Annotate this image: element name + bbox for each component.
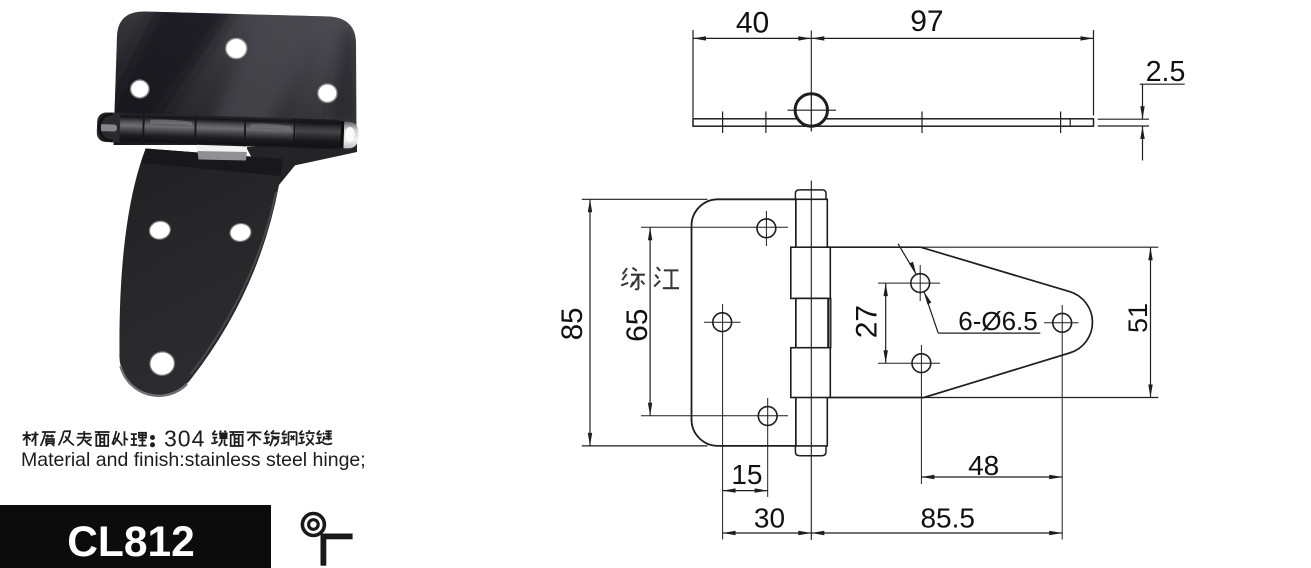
photo: barrel gloss streak left knuckle [150, 119, 192, 125]
barrel pin column [796, 199, 827, 446]
knuckle 2 box (right leaf) [791, 247, 831, 298]
Chinese caption line: material and surface finish text [23, 430, 333, 446]
svg-text:48: 48 [968, 450, 999, 481]
dimension line 40/97 [693, 37, 1094, 39]
photo: strap hole upper-left [148, 219, 172, 241]
left leaf plate outline [692, 199, 796, 446]
char jiao [298, 430, 314, 445]
svg-text:15: 15 [731, 459, 762, 490]
photo: strap tip rim highlight [121, 366, 188, 396]
48 dimension [921, 476, 1062, 478]
2.5 extension line upper [1098, 118, 1149, 120]
char zhi [41, 432, 56, 446]
arrow left end 40 [693, 36, 706, 40]
svg-text:304: 304 [164, 426, 205, 452]
photo: top leaf plate [114, 12, 357, 146]
arrow right end 97 [1081, 36, 1094, 40]
extension line bottom-left hole down [767, 398, 769, 497]
left plate hole bottom [758, 407, 777, 426]
right plate hole top [911, 274, 930, 293]
char biao [77, 431, 92, 446]
extension line right [1093, 30, 1095, 116]
2.5 extension line lower [1098, 125, 1149, 127]
photo: barrel left tip dark ring [99, 114, 113, 141]
photo: top plate hole right [318, 84, 337, 103]
svg-text:30: 30 [754, 503, 785, 534]
char ji [59, 431, 74, 445]
right leaf plate outline [829, 247, 1093, 397]
svg-text:CL812: CL812 [67, 519, 195, 566]
circle vertical centerline overlay [810, 93, 812, 132]
svg-text:51: 51 [1123, 303, 1153, 333]
watermark Lianjiang characters [621, 267, 679, 289]
char bu [247, 432, 262, 446]
svg-text:85: 85 [556, 307, 589, 340]
barrel circle in side view [795, 94, 827, 126]
photo: barrel gloss streak right knuckle [250, 123, 291, 129]
svg-text:27: 27 [851, 305, 884, 338]
65 dimension [641, 226, 788, 228]
svg-text:6-Ø6.5: 6-Ø6.5 [958, 306, 1038, 336]
85 dimension [582, 198, 708, 200]
51 dimension [1150, 247, 1152, 397]
photo: knuckle joint line 4 [293, 118, 296, 148]
extension line mid hole down [722, 304, 724, 540]
photo: barrel right silver cap [343, 122, 358, 149]
photo: bright glint under barrel middle [197, 142, 248, 153]
pin centerline (vertical axis) [810, 181, 812, 541]
27 dimension [878, 282, 940, 284]
6-D6.5 leader line lower segment [924, 292, 938, 333]
left plate hole top [757, 219, 776, 238]
char jiang (watermark) [654, 267, 679, 288]
middle knuckle doubled right edge [828, 298, 831, 347]
circle horizontal centerline [788, 109, 837, 111]
CL812 model label box [0, 505, 271, 568]
extension line left [692, 30, 694, 118]
photo: darker 5th knuckle overlay [295, 118, 340, 149]
photo of stainless steel T-hinge [80, 0, 359, 396]
char mian [95, 432, 110, 446]
right plate hole bottom [912, 354, 931, 373]
photo: right cap white spec [345, 127, 355, 142]
char lian (watermark) [621, 268, 645, 290]
photo: strap right edge subtle highlight [191, 192, 276, 374]
6-D6.5 leader line upper segment [898, 244, 916, 275]
knuckle 4 box (right leaf) [791, 348, 831, 398]
svg-text:Material and finish:stainless: Material and finish:stainless steel hing… [21, 449, 366, 471]
hole centerline tick 3 [921, 112, 923, 134]
extension line right bottom hole down [920, 345, 922, 484]
char chu [112, 431, 128, 446]
svg-text:85.5: 85.5 [920, 503, 975, 534]
51 bottom extension line (plate bottom edge continued) [924, 397, 1158, 399]
51 top extension line (plate top edge continued) [921, 246, 1159, 248]
brand logo: circled pin with bars [302, 514, 352, 566]
photo: right cap dark separator [340, 121, 344, 148]
photo: strap top shadow under barrel [142, 149, 284, 177]
hole centerline tick 1 [722, 112, 724, 134]
photo: barrel left tip highlight [99, 124, 117, 132]
strip end division [1069, 119, 1071, 126]
barrel bottom cap [795, 446, 826, 456]
photo: barrel left pin tip [97, 112, 121, 142]
photo: gray knuckle base under barrel [198, 151, 247, 161]
char jing [211, 431, 227, 446]
photo: strap hole upper-right [229, 222, 253, 243]
hole centerline tick 2 [765, 112, 767, 134]
char mian2 [229, 432, 244, 446]
6-D6.5 underline [938, 332, 1040, 334]
2.5 lower arrow line [1142, 126, 1144, 160]
photo: dark wedge of top plate visible right of strap [246, 143, 357, 186]
char li [131, 433, 147, 446]
svg-text:2.5: 2.5 [1146, 56, 1186, 88]
30 / 85.5 dimension line [723, 532, 1063, 534]
barrel top cap [795, 190, 826, 199]
photo: top plate diagonal sheen bands [80, 0, 356, 160]
char gang [281, 431, 297, 446]
svg-text:97: 97 [910, 5, 943, 38]
middle knuckle box (left leaf) [796, 298, 828, 347]
svg-text:40: 40 [736, 7, 769, 40]
photo: knuckle joint line 1 [142, 114, 145, 144]
svg-text:65: 65 [621, 309, 654, 342]
photo: top plate hole center [226, 38, 247, 58]
15 dimension [723, 490, 768, 492]
left plate hole middle [713, 313, 732, 332]
photo: knuckle joint line 2 [194, 115, 197, 145]
2.5 leader horizontal [1140, 83, 1185, 85]
arrow at pin centerline left side [798, 36, 811, 40]
strip body (leaf seen edge-on) [693, 119, 1094, 126]
hole centerline tick 4 [1060, 112, 1062, 134]
2.5 upper arrow line [1142, 84, 1144, 119]
extension line far hole down [1061, 305, 1063, 540]
arrow at pin centerline right side [811, 36, 824, 40]
photo: strap hole lower [148, 350, 176, 377]
char cai [23, 431, 39, 446]
right plate hole far [1053, 313, 1072, 332]
char lian2 [316, 430, 332, 444]
photo: hinge barrel cylinder [97, 112, 359, 150]
photo: lower strap leaf [119, 149, 283, 396]
pin centerline vertical [810, 31, 812, 129]
photo: top plate hole left [131, 80, 149, 98]
photo: knuckle joint line 3 [243, 117, 246, 147]
char xiu [263, 430, 279, 446]
fullwidth colon [150, 435, 155, 440]
